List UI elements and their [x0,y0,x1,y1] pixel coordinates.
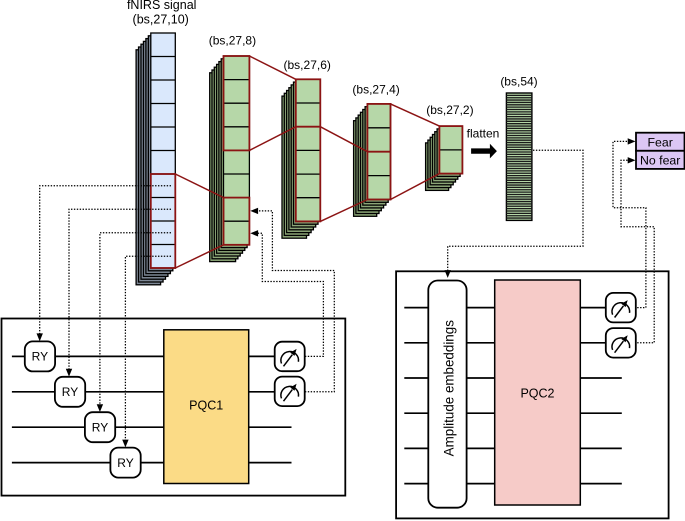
label: (bs,27,2) [426,103,473,117]
red outline on conv3 column with divider [367,104,390,200]
RY gate 4 [110,448,140,478]
No fear box [636,151,685,169]
flatten arrow [471,144,497,159]
input tensor front column (bs,27,10) 10 cells [151,33,176,268]
svg-text:RY: RY [117,456,133,470]
svg-text:(bs,27,8): (bs,27,8) [209,34,256,48]
svg-text:Amplitude embeddings: Amplitude embeddings [442,320,457,457]
PQC2 measurement gauge 2 [606,328,636,358]
qubit wire 4 [404,412,622,414]
dotted wire PQC2 gauge2 to No fear [621,157,654,343]
qubit wire 3 [404,377,622,379]
red line conv3 top to conv4 top [391,104,440,126]
PQC1 measurement gauge 2 [275,377,305,407]
conv3 front column (bs,27,4) 4 cells [367,104,390,200]
red line conv1 window top to conv2 top [249,56,295,79]
svg-text:Fear: Fear [648,135,673,149]
red window box on input column (cells 7-10) [151,174,176,268]
conv4 stack back layers [426,129,461,191]
svg-text:flatten: flatten [467,127,500,141]
red window box on conv1 column (cells 1-4) [224,56,250,150]
conv2 stack back layers [282,82,318,238]
flattened vector column (bs,54) [506,93,532,220]
svg-text:RY: RY [62,385,78,399]
svg-text:(bs,27,2): (bs,27,2) [426,103,473,117]
red outline on conv2 column with divider [296,79,321,221]
svg-text:fNIRS signal: fNIRS signal [127,0,196,12]
PQC1 block [164,330,249,484]
svg-text:(bs,27,4): (bs,27,4) [352,83,399,97]
PQC1 measurement gauge 1 [275,342,305,372]
qubit wire 5 [404,447,622,449]
label: (bs,54) [500,75,537,89]
conv1 stack back layers [210,59,247,262]
dotted wire input cell7 to RY1 [37,186,172,341]
PQC1 outer box [2,319,346,496]
conv3 stack back layers [354,107,389,217]
svg-text:RY: RY [92,421,108,435]
Fear box [636,133,685,151]
qubit wire 2 [404,342,606,344]
label: flatten [467,127,500,141]
red line conv2 bottom to conv3 bottom [320,200,367,222]
svg-text:(bs,54): (bs,54) [500,75,537,89]
red line conv2 divider to conv3 divider [320,127,367,152]
Amplitude embeddings block [428,281,466,508]
dotted wire flatten vector to amplitude embeddings [445,150,584,278]
conv2 front column (bs,27,6) 6 cells [296,79,321,221]
svg-text:RY: RY [32,350,48,364]
RY gate 3 [85,412,115,442]
qubit wire 6 [404,483,622,485]
qubit wire 3 [12,426,292,428]
qubit wire 1 [404,307,606,309]
svg-text:PQC1: PQC1 [189,398,223,412]
RY gate 1 [25,341,55,371]
conv1 front column (bs,27,8) 8 cells [224,56,250,245]
label: (bs,27,10) [133,13,189,27]
red output box on conv1 column (cells 7-8) [224,198,250,245]
qubit wire 4 [12,462,292,464]
label: fNIRS signal [127,0,196,12]
red line conv3 bottom to conv4 bottom [391,174,440,200]
input stack back layers [136,36,173,285]
svg-text:(bs,27,6): (bs,27,6) [284,58,331,72]
qubit wire 1 [12,355,275,357]
red outline on conv4 column [439,126,462,174]
dotted wire input cell8 to RY2 [66,209,171,376]
dotted wire PQC1 gauge1 to conv1 cell8 [250,230,323,356]
PQC2 outer box [396,271,668,518]
dotted wire input cell10 to RY4 [122,256,171,447]
PQC2 block [495,280,581,505]
svg-text:(bs,27,10): (bs,27,10) [133,13,189,27]
RY gate 2 [55,377,85,407]
dotted wire input cell9 to RY3 [97,233,171,412]
PQC2 measurement gauge 1 [606,293,636,323]
red line conv1 window bottom to conv2 divider [249,127,295,151]
label: (bs,27,8) [209,34,256,48]
red line input-box bottom to conv1 output box bottom [175,245,223,268]
svg-text:No fear: No fear [640,153,680,167]
qubit wire 2 [12,391,275,393]
conv4 front column (bs,27,2) 2 cells [439,126,462,174]
svg-text:PQC2: PQC2 [520,386,554,400]
label: (bs,27,6) [284,58,331,72]
label: (bs,27,4) [352,83,399,97]
dotted wire PQC1 gauge2 to conv1 cell7 [250,208,334,392]
red line input-box top to conv1 output box top [175,174,223,198]
dotted wire PQC2 gauge1 to Fear [613,138,646,307]
